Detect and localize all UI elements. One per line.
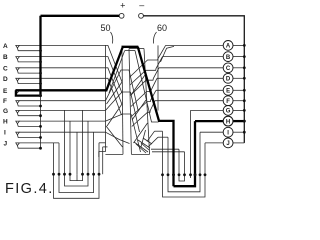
svg-text:J: J <box>226 141 229 147</box>
svg-text:F: F <box>3 98 7 105</box>
svg-text:60: 60 <box>157 23 167 33</box>
svg-text:+: + <box>120 1 125 11</box>
svg-text:G: G <box>3 108 8 115</box>
svg-text:F: F <box>226 99 230 105</box>
svg-text:H: H <box>3 119 8 126</box>
svg-text:E: E <box>226 89 230 95</box>
svg-text:C: C <box>226 66 231 72</box>
svg-text:–: – <box>139 0 144 10</box>
svg-text:FIG.4.: FIG.4. <box>5 181 54 197</box>
svg-text:B: B <box>3 54 8 61</box>
svg-text:G: G <box>226 109 231 115</box>
svg-text:J: J <box>4 140 8 147</box>
svg-text:H: H <box>226 119 230 125</box>
svg-text:D: D <box>226 77 231 83</box>
svg-text:B: B <box>226 55 231 61</box>
svg-text:50: 50 <box>101 23 111 33</box>
svg-text:C: C <box>3 65 8 72</box>
svg-text:I: I <box>4 130 6 137</box>
svg-text:D: D <box>3 76 8 83</box>
svg-text:E: E <box>3 88 8 95</box>
svg-text:A: A <box>226 44 231 50</box>
svg-text:A: A <box>3 43 8 50</box>
